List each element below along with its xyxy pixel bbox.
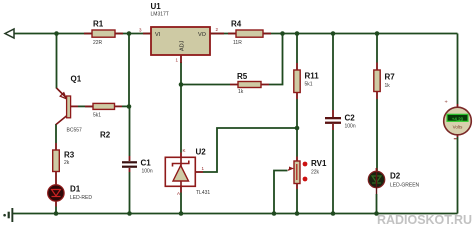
wire C1 to bottom rail bbox=[129, 172, 131, 214]
svg-text:1k: 1k bbox=[385, 83, 391, 89]
svg-text:R11: R11 bbox=[305, 72, 320, 81]
svg-text:R3: R3 bbox=[64, 151, 75, 160]
ground terminal bottom left bbox=[3, 208, 13, 222]
node dot bottom D1 bbox=[54, 211, 59, 216]
node dot top R7 bbox=[375, 31, 380, 36]
shunt regulator U2 TL431 bbox=[165, 148, 210, 214]
wire C2 to bottom rail bbox=[332, 130, 334, 214]
diode D1 LED-RED bbox=[48, 185, 93, 214]
wire ref node to TL431 ref pin bbox=[203, 128, 297, 172]
svg-text:1k: 1k bbox=[238, 89, 244, 95]
wire ADJ node to R5 bbox=[181, 84, 230, 86]
node dot bottom U2 bbox=[179, 211, 184, 216]
potentiometer RV1 bbox=[288, 157, 327, 190]
wire top rail bbox=[14, 33, 458, 35]
svg-text:5k1: 5k1 bbox=[305, 82, 313, 88]
svg-text:C1: C1 bbox=[141, 159, 152, 168]
resistor R4 bbox=[228, 20, 271, 47]
svg-text:LM317T: LM317T bbox=[151, 12, 169, 18]
svg-text:R5: R5 bbox=[237, 72, 248, 81]
wire RV1 bottom to bottom rail bbox=[296, 189, 298, 214]
svg-text:R4: R4 bbox=[231, 20, 242, 29]
svg-text:LED-GREEN: LED-GREEN bbox=[390, 183, 420, 189]
svg-text:RADIOSKOT.RU: RADIOSKOT.RU bbox=[377, 212, 472, 227]
svg-text:100n: 100n bbox=[345, 124, 356, 130]
wire C2 top riser bbox=[332, 34, 334, 111]
wire riser to Q1 emitter bbox=[56, 34, 58, 89]
wire RV1 wiper to bottom rail bbox=[274, 171, 288, 214]
resistor R3 bbox=[53, 143, 75, 185]
svg-text:R1: R1 bbox=[93, 20, 104, 29]
capacitor C1 bbox=[122, 156, 153, 175]
svg-text:R2: R2 bbox=[100, 131, 111, 140]
svg-text:C2: C2 bbox=[345, 114, 356, 123]
transistor Q1 bbox=[56, 75, 82, 134]
wire R5 riser bbox=[269, 34, 283, 85]
node dot top R1 out bbox=[127, 31, 132, 36]
resistor R5 bbox=[230, 72, 269, 95]
wire R11 bottom to ref node bbox=[296, 99, 298, 128]
node dot base junction bbox=[127, 104, 132, 109]
wire ref node down to RV1 top bbox=[296, 128, 298, 157]
resistor R2 bbox=[85, 103, 122, 139]
svg-text:100n: 100n bbox=[142, 169, 153, 175]
svg-text:D1: D1 bbox=[70, 185, 81, 194]
wire ADJ vertical bbox=[180, 62, 182, 153]
wire R11 top riser bbox=[296, 34, 298, 64]
wire R7 to D2 bbox=[376, 99, 378, 172]
svg-text:VI: VI bbox=[155, 32, 161, 38]
svg-text:+4.20: +4.20 bbox=[452, 116, 464, 121]
wire Q1 base to R2 bbox=[78, 105, 93, 107]
input terminal arrow bbox=[5, 29, 14, 38]
svg-text:2k: 2k bbox=[64, 160, 70, 166]
wire Q1 collector down bbox=[55, 124, 57, 143]
resistor R1 bbox=[84, 20, 123, 47]
svg-text:Volts: Volts bbox=[453, 125, 464, 130]
node dot bottom RV1 bbox=[295, 211, 300, 216]
svg-text:D2: D2 bbox=[390, 172, 401, 181]
wire bottom rail bbox=[13, 213, 458, 215]
svg-text:22R: 22R bbox=[93, 40, 103, 46]
svg-text:5k1: 5k1 bbox=[93, 113, 101, 119]
node dot top C2 bbox=[331, 31, 336, 36]
svg-text:U2: U2 bbox=[196, 148, 207, 157]
svg-text:ADJ: ADJ bbox=[180, 40, 186, 51]
svg-text:VO: VO bbox=[198, 32, 207, 38]
node dot bottom C1 bbox=[127, 211, 132, 216]
wire R7 top riser bbox=[376, 34, 378, 63]
wire voltmeter to bottom rail bbox=[457, 137, 459, 214]
svg-text:11R: 11R bbox=[233, 40, 242, 46]
node dot bottom wiper bbox=[272, 211, 277, 216]
wire base node down to C1 bbox=[129, 107, 131, 157]
svg-text:U1: U1 bbox=[151, 2, 162, 11]
svg-text:R7: R7 bbox=[385, 73, 396, 82]
capacitor C2 bbox=[325, 110, 356, 130]
svg-text:Q1: Q1 bbox=[71, 75, 82, 84]
svg-text:A: A bbox=[177, 191, 180, 196]
wire right drop to voltmeter bbox=[457, 34, 459, 105]
svg-text:TL431: TL431 bbox=[196, 190, 210, 196]
node dot bottom D2 bbox=[374, 211, 379, 216]
svg-text:BC557: BC557 bbox=[67, 128, 83, 134]
svg-text:+: + bbox=[445, 100, 448, 106]
node dot top Q1 bbox=[54, 31, 59, 36]
wire riser R1 output to base node bbox=[128, 34, 130, 107]
svg-text:22k: 22k bbox=[311, 170, 320, 176]
resistor R7 bbox=[374, 63, 395, 100]
svg-text:LED-RED: LED-RED bbox=[70, 195, 92, 201]
node dot ADJ junction bbox=[179, 82, 184, 87]
node dot bottom C2 bbox=[331, 211, 336, 216]
node dot top R11 bbox=[295, 31, 300, 36]
node dot top R5 riser bbox=[280, 31, 285, 36]
regulator U1 bbox=[139, 2, 224, 63]
diode D2 LED-GREEN bbox=[368, 168, 419, 194]
wire R2 to base node bbox=[122, 105, 129, 107]
node dot ref junction bbox=[295, 126, 300, 131]
svg-text:K: K bbox=[183, 148, 186, 153]
svg-text:RV1: RV1 bbox=[311, 159, 327, 168]
voltmeter bbox=[444, 100, 472, 139]
resistor R11 bbox=[294, 63, 319, 99]
wire D2 to bottom rail bbox=[376, 194, 378, 214]
